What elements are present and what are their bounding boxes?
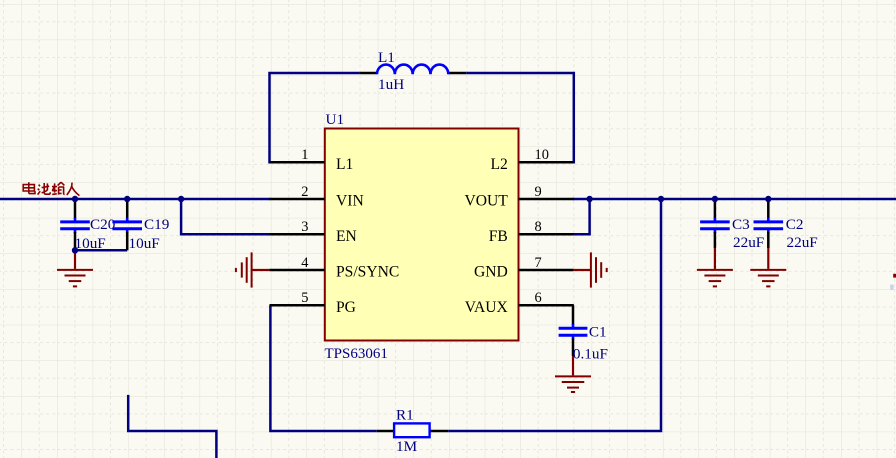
svg-text:2: 2 xyxy=(301,184,308,200)
net label 电池输入 (battery input) xyxy=(23,182,79,195)
svg-text:4: 4 xyxy=(301,255,308,271)
wire PG to R1 xyxy=(270,305,376,431)
svg-text:6: 6 xyxy=(535,290,542,306)
ground (C20 node) xyxy=(74,250,76,269)
capacitor C2 xyxy=(767,199,770,219)
resistor R1 leads xyxy=(377,430,394,433)
ground (cut off at right edge) xyxy=(893,274,896,278)
svg-text:VAUX: VAUX xyxy=(465,299,508,316)
op-amp U1 TPS63061 body xyxy=(325,129,519,341)
svg-text:9: 9 xyxy=(535,184,542,200)
pin 1 (L1) xyxy=(270,161,325,164)
svg-text:GND: GND xyxy=(474,264,508,281)
pin 9 (VOUT) xyxy=(519,198,574,201)
capacitor C20 xyxy=(74,199,77,219)
pin 8 (FB) xyxy=(519,233,574,236)
capacitor C19 xyxy=(126,199,129,219)
wire orphan stub bottom-left xyxy=(128,395,216,458)
capacitor C3 xyxy=(714,199,717,219)
node G junction xyxy=(765,196,771,202)
ground at GND pin 7 xyxy=(574,269,591,271)
svg-text:22uF: 22uF xyxy=(733,234,764,251)
svg-text:10uF: 10uF xyxy=(75,235,106,252)
svg-text:C20: C20 xyxy=(90,216,116,233)
ground (C2) xyxy=(767,248,769,269)
pin 2 (VIN) xyxy=(270,198,325,201)
wire top loop left (pin1 to L1) xyxy=(270,73,360,162)
node E junction xyxy=(658,196,664,202)
wire top loop right (L1 to pin10) xyxy=(466,73,574,162)
node F junction xyxy=(712,196,718,202)
wire VIN rail xyxy=(0,198,271,201)
capacitor C1 xyxy=(572,305,575,325)
svg-text:1: 1 xyxy=(301,147,308,163)
pin 7 (GND) xyxy=(519,269,574,272)
svg-text:10uF: 10uF xyxy=(129,235,160,252)
pin 5 (PG) xyxy=(270,304,325,307)
pin 6 (VAUX) xyxy=(519,304,574,307)
svg-text:VIN: VIN xyxy=(336,193,364,210)
svg-text:L2: L2 xyxy=(490,156,507,173)
node B junction xyxy=(124,196,130,202)
svg-text:VOUT: VOUT xyxy=(464,193,508,210)
wire C20-C19 bottom link xyxy=(75,249,127,252)
svg-text:TPS63061: TPS63061 xyxy=(325,346,388,362)
svg-text:L1: L1 xyxy=(378,49,395,66)
svg-text:R1: R1 xyxy=(396,406,414,423)
ground at PS/SYNC pin 4 xyxy=(252,269,270,271)
wire FB branch xyxy=(573,199,590,234)
svg-text:1M: 1M xyxy=(396,438,418,455)
svg-text:10: 10 xyxy=(535,147,549,163)
svg-text:EN: EN xyxy=(336,228,357,245)
svg-text:C19: C19 xyxy=(144,216,169,233)
wire VOUT rail xyxy=(573,198,896,201)
node A junction xyxy=(72,196,78,202)
svg-text:5: 5 xyxy=(301,290,308,306)
pin 3 (EN) xyxy=(270,233,325,236)
ground (C1) xyxy=(572,356,574,375)
svg-text:8: 8 xyxy=(535,219,542,235)
wire VOUT to R1 vertical xyxy=(448,199,661,431)
svg-text:0.1uF: 0.1uF xyxy=(573,345,608,362)
svg-text:FB: FB xyxy=(489,228,508,245)
svg-text:L1: L1 xyxy=(336,156,353,173)
resistor R1 body xyxy=(394,423,430,437)
svg-text:C3: C3 xyxy=(732,216,750,233)
svg-text:PG: PG xyxy=(336,299,356,316)
svg-text:U1: U1 xyxy=(326,111,345,128)
ground (C3) xyxy=(714,248,716,269)
svg-text:3: 3 xyxy=(301,219,308,235)
inductor L1 coil xyxy=(377,65,448,75)
svg-text:22uF: 22uF xyxy=(787,234,818,251)
inductor L1 leads xyxy=(360,72,377,75)
svg-text:7: 7 xyxy=(535,255,542,271)
svg-text:1uH: 1uH xyxy=(378,76,404,93)
svg-text:PS/SYNC: PS/SYNC xyxy=(336,264,399,281)
pin 4 (PS/SYNC) xyxy=(270,269,325,272)
node C junction xyxy=(178,196,184,202)
svg-text:C1: C1 xyxy=(589,323,607,340)
node H junction xyxy=(72,247,78,253)
pin 10 (L2) xyxy=(519,161,574,164)
wire EN branch xyxy=(181,199,270,234)
node D junction xyxy=(586,196,592,202)
svg-text:C2: C2 xyxy=(786,216,804,233)
